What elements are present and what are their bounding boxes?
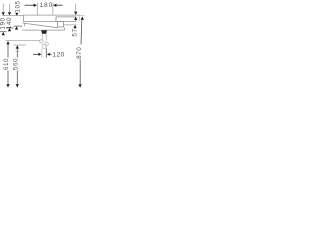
dim 560 line upper [16,49,18,58]
dim 870 top arrow up [81,17,84,20]
dim 610 bottom arrow down [6,84,9,88]
dim 180 arrow right-pointing [34,4,37,7]
dim 560 line lower [16,71,18,84]
dim 870 line upper [80,20,83,45]
dim 120 leader right [50,53,52,55]
dim 120 arrow right-pointing [39,53,42,56]
valve centerline leader to 57 dim [64,24,77,26]
dim 610 line lower [7,71,9,84]
dim 870 bottom arrow down [79,84,82,88]
dim 140 leader above [9,4,11,12]
lower reference line for 560 [14,44,27,46]
shank line right [45,34,47,41]
dim 190 leader above [2,4,4,13]
svg-text:120: 120 [52,51,65,58]
down pipe left line [41,48,43,57]
svg-text:610: 610 [3,58,10,70]
dim 180 leader left [25,4,34,6]
dim 610 line upper [7,44,9,57]
top view plate bottom edge [24,21,76,23]
svg-text:57: 57 [72,28,79,36]
hose nut circle C on pipe [42,44,46,48]
dim 190 top arrow down [2,12,5,15]
dim 140 bottom arrow up [8,28,11,31]
dim 180 leader right [56,4,62,6]
dim 560 top arrow up [16,45,19,48]
dim 120 arrow left-pointing [47,53,50,56]
hose nut circle A [40,40,43,43]
svg-text:560: 560 [13,58,20,70]
top view plate top edge [24,14,80,16]
side view valve body square [58,21,64,27]
dim 120 leader left [33,53,39,55]
stair reference line for 105 [14,25,23,27]
dim 560 bottom arrow down [16,84,19,88]
dim 57 arrow up [74,25,77,28]
shank line left [41,34,43,41]
side view shelf right end hook [63,28,65,31]
stair reference line for 140 [6,27,14,29]
side view shelf slope line [22,23,57,28]
svg-text:105: 105 [15,0,22,12]
svg-text:140: 140 [6,17,13,29]
dim 180 arrow left-pointing [53,4,56,7]
top view plate left edge [23,15,25,22]
ext line right of plate [80,15,85,17]
dim 190 bottom arrow up [2,32,5,35]
stair reference line for 190 [0,31,7,33]
hose nut circle B [45,42,48,45]
dim 105 top arrow down [15,13,18,16]
dim 180 ext line right [52,3,54,15]
down pipe right line [45,48,47,57]
dim 870 line lower [79,60,81,85]
top view inner horizontal [56,16,76,18]
top dim leader above plate right [75,4,77,12]
plate thickness arrow up [74,17,77,20]
shelf top reference line extension [2,15,23,17]
svg-text:180: 180 [39,2,53,9]
top view inner vertical right [75,17,77,22]
dim 180 ext line left [36,3,38,15]
top view inner vertical left [55,17,57,22]
dim 140 top arrow down [8,12,11,15]
dim 105 bottom arrow up [15,26,18,29]
plate thickness arrow down [74,12,77,15]
top view right end edge [79,15,81,21]
mounting nut dark trapezoid [41,30,47,33]
line break tick on 560 [15,50,19,52]
svg-text:870: 870 [76,47,83,59]
dim 610 top arrow up [6,41,9,44]
hose horizontal reference line [6,40,40,42]
side view shelf left end cap [24,23,26,27]
side view deck line [22,29,64,31]
